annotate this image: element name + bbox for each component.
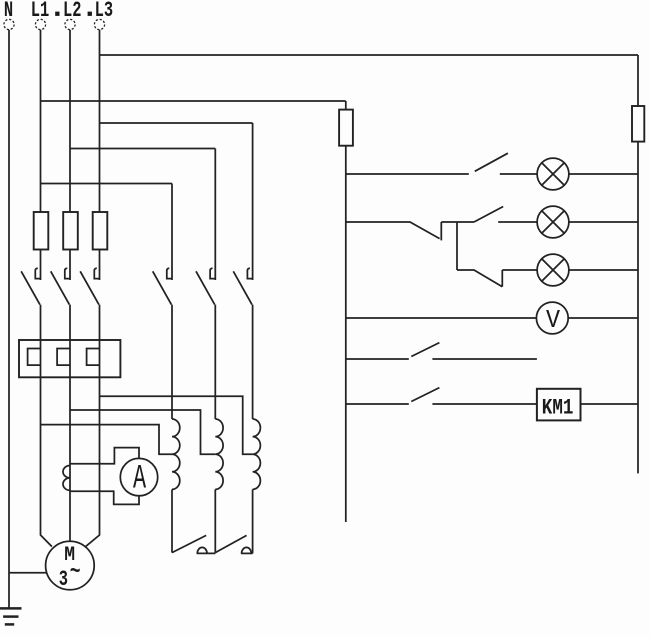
- svg-text:KM1: KM1: [542, 396, 574, 422]
- svg-text:V: V: [546, 306, 560, 335]
- svg-text:~: ~: [70, 559, 81, 586]
- svg-text:3: 3: [59, 566, 68, 591]
- svg-text:N: N: [4, 0, 13, 23]
- svg-text:L1: L1: [31, 0, 49, 23]
- svg-text:L2: L2: [63, 0, 81, 23]
- svg-text:A: A: [133, 459, 147, 498]
- svg-text:L3: L3: [95, 0, 113, 23]
